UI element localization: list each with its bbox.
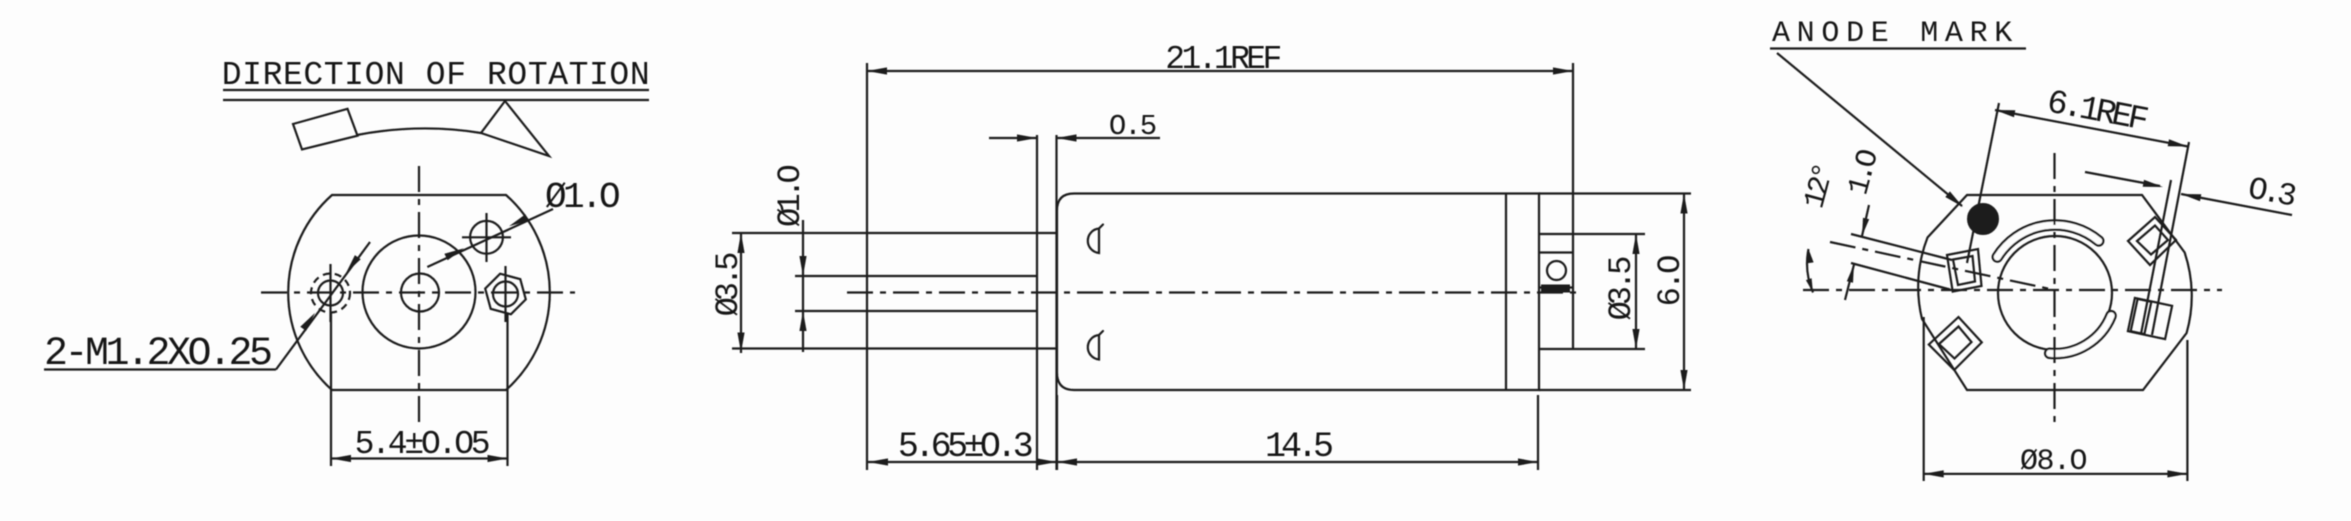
svg-text:5.65±O.3: 5.65±O.3 (898, 427, 1032, 467)
svg-text:Ø1.O: Ø1.O (545, 177, 619, 218)
svg-text:Ø3.5: Ø3.5 (710, 253, 747, 317)
svg-text:14.5: 14.5 (1265, 427, 1332, 467)
svg-text:6.O: 6.O (1652, 256, 1689, 306)
svg-text:ANODE MARK: ANODE MARK (1772, 17, 2019, 51)
svg-text:Ø1.O: Ø1.O (772, 165, 809, 227)
svg-text:O.5: O.5 (1109, 110, 1156, 143)
svg-text:21.1REF: 21.1REF (1165, 41, 1280, 78)
svg-text:Ø3.5: Ø3.5 (1603, 257, 1640, 321)
svg-text:DIRECTION OF ROTATION: DIRECTION OF ROTATION (222, 57, 650, 94)
svg-text:Ø8.O: Ø8.O (2020, 445, 2087, 479)
svg-text:5.4±O.O5: 5.4±O.O5 (355, 426, 489, 463)
